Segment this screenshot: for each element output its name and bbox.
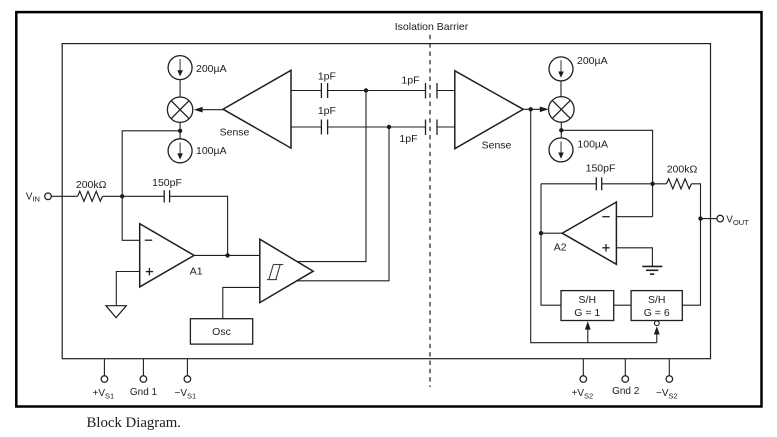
svg-text:+VS1: +VS1 [93, 388, 115, 400]
terminal Gnd 1 [142, 359, 144, 376]
node F: right sense output node [529, 107, 533, 111]
arrow: control to S/H G=6 [656, 334, 658, 343]
svg-text:200kΩ: 200kΩ [667, 164, 698, 176]
node B: left current node [178, 129, 182, 133]
svg-text:+VS2: +VS2 [572, 388, 594, 400]
wire: node A to capacitor C1 [103, 195, 164, 197]
svg-text:1pF: 1pF [399, 133, 417, 145]
svg-text:Gnd 1: Gnd 1 [130, 387, 158, 398]
wire: C2 to barrier cap C4 with node C [328, 90, 426, 92]
wire: VIN terminal to resistor [51, 195, 77, 197]
isolation barrier dashed line [429, 35, 431, 387]
svg-text:Gnd 2: Gnd 2 [612, 386, 640, 397]
A1 plus sign [146, 268, 153, 275]
svg-text:200kΩ: 200kΩ [76, 179, 107, 191]
wire: between S/H boxes [614, 304, 631, 306]
svg-text:200µA: 200µA [196, 63, 227, 75]
wire: left loop vertical down to S/H G=1 [541, 184, 561, 305]
current source I2 100uA (left) [168, 139, 192, 163]
svg-text:VIN: VIN [26, 191, 40, 203]
A2 plus sign [602, 244, 609, 251]
wire: node G right and down to node H [561, 130, 652, 216]
wire: sense left top input to C2 [291, 90, 321, 92]
terminal +VS1 [103, 359, 105, 376]
op-amp A1 [140, 224, 194, 287]
ground G2 (earth symbol) [642, 266, 662, 274]
capacitor C3 1pF (bottom left) [321, 120, 327, 135]
wire: comparator upper output up to node C [297, 93, 366, 262]
ground G1 (signal ground triangle) [106, 306, 126, 318]
svg-text:150pF: 150pF [152, 177, 182, 189]
wire: node A down to A1 inverting input [122, 196, 140, 240]
resistor R2 200k (right) [667, 179, 692, 189]
node G: right current node [559, 128, 563, 132]
bubble on S/H G=6 control input [654, 321, 659, 326]
svg-text:G = 1: G = 1 [574, 307, 600, 319]
arrow: sense amp to multiplier M1 [201, 109, 224, 111]
terminal +VS2 [582, 359, 584, 376]
capacitor C6 150pF right [596, 177, 601, 190]
svg-text:1pF: 1pF [401, 75, 419, 87]
arrow: sense output to multiplier M2 [523, 108, 541, 110]
wire: C5 to right sense input [437, 126, 455, 128]
current source I4 100uA (right) [549, 138, 573, 162]
svg-text:150pF: 150pF [586, 163, 616, 175]
wire: C4 to right sense input [437, 90, 455, 92]
svg-text:Sense: Sense [482, 140, 512, 152]
capacitor C1 150pF left [164, 190, 169, 202]
svg-text:G = 6: G = 6 [644, 307, 670, 319]
node D [387, 125, 391, 129]
capacitor C2 1pF (top left) [321, 83, 327, 98]
wire: I1 to multiplier [179, 80, 181, 97]
wire: comparator lower output up to node D [296, 129, 389, 281]
wire: multiplier to node B and I2 [179, 122, 181, 138]
capacitor C5 1pF (barrier bottom) [426, 120, 438, 136]
terminal -VS1 [186, 359, 188, 376]
A2 minus sign [602, 216, 609, 218]
wire: M2 to node G and I4 [560, 122, 562, 138]
wire: C3 to barrier cap C5 with node D [328, 126, 426, 128]
svg-text:Block Diagram.: Block Diagram. [87, 415, 182, 431]
op-amp: sense amplifier right (points right) [455, 71, 523, 149]
hysteresis symbol [267, 265, 283, 280]
terminal -VS2 [668, 359, 670, 376]
wire: A1 output to comparator, node E [194, 254, 260, 256]
comparator U1 with hysteresis [260, 239, 313, 302]
wire: A2 output to left loop vertical [541, 232, 562, 234]
inner circuit box [62, 44, 710, 359]
wire: A1 plus input to ground [116, 272, 139, 306]
resistor R1 200k (input, left) [78, 191, 103, 201]
node E: A1 output node [225, 253, 229, 257]
node J: A2 output node [539, 231, 543, 235]
wire: oscillator to comparator lower input [223, 287, 260, 318]
wire: A2 inverting input to node H [616, 216, 652, 218]
svg-text:−VS1: −VS1 [175, 388, 197, 400]
svg-text:S/H: S/H [579, 294, 597, 306]
current source I3 200uA (right) [549, 57, 573, 81]
wire: sense left bottom input to C3 [291, 126, 321, 128]
wire: C1 to feedback corner [170, 196, 228, 255]
svg-text:1pF: 1pF [318, 105, 336, 117]
wire: I3 to multiplier M2 [560, 81, 562, 97]
multiplier M2 (right demodulator) [549, 97, 575, 123]
svg-text:S/H: S/H [648, 294, 666, 306]
current source I1 200uA (left) [168, 56, 192, 80]
svg-text:VOUT: VOUT [726, 215, 749, 227]
wire: C6 to resistor R2 [602, 183, 667, 185]
arrow: control to S/H G=1 [587, 329, 589, 343]
wire: control line from node F down and across [531, 109, 657, 342]
svg-text:200µA: 200µA [577, 55, 608, 67]
svg-text:100µA: 100µA [196, 145, 227, 157]
A1 minus sign [145, 239, 152, 241]
S/H G=1 box [561, 291, 614, 321]
node A: VIN summing node [120, 194, 124, 198]
wire: node I to VOUT terminal [701, 218, 718, 220]
terminal Gnd 2 [624, 359, 626, 376]
svg-text:1pF: 1pF [318, 71, 336, 83]
oscillator box Osc [190, 319, 252, 344]
node I: VOUT node [698, 216, 702, 220]
svg-text:Isolation Barrier: Isolation Barrier [395, 21, 469, 33]
svg-text:−VS2: −VS2 [656, 388, 678, 400]
wire: A2 plus input to earth ground [616, 248, 652, 266]
wire: feedback rail left segment to C6 [541, 183, 596, 185]
node C [364, 88, 368, 92]
wire: node A up to current node [122, 131, 180, 197]
svg-text:Sense: Sense [220, 126, 250, 138]
svg-text:A2: A2 [554, 241, 567, 253]
svg-text:100µA: 100µA [577, 139, 608, 151]
multiplier M1 (left modulator) [167, 97, 192, 122]
op-amp A2 (points left) [562, 202, 616, 264]
op-amp: sense amplifier left (points left) [223, 70, 291, 148]
svg-text:A1: A1 [190, 265, 203, 277]
svg-text:Osc: Osc [212, 326, 231, 338]
S/H G=6 box [631, 291, 682, 321]
terminal VIN [45, 193, 52, 200]
capacitor C4 1pF (barrier top) [426, 83, 438, 99]
node H: feedback node [650, 182, 654, 186]
wire: R2 to output rail down to S/H G=6 [682, 184, 700, 305]
terminal VOUT [717, 215, 724, 222]
